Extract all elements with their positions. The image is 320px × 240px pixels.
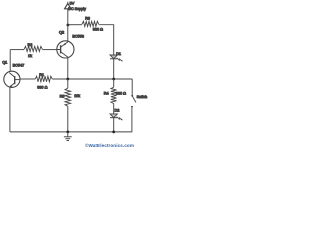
node junction at supply split [67,24,70,27]
svg-text:R2: R2 [28,43,33,47]
wire Q1 emitter to bottom rail [9,87,11,132]
wire switch branch top [131,79,133,95]
svg-text:BC558: BC558 [72,35,84,39]
wire switch to bottom rail [131,108,133,132]
resistor R2 [24,46,42,51]
junction D2 rail node [112,131,115,134]
svg-text:330 Ω: 330 Ω [37,86,47,90]
node junction at D1 branch [112,78,115,81]
LED D1 [110,55,123,62]
svg-text:5V: 5V [70,1,75,6]
junction ground node [66,131,69,134]
wire node line R1 to switch corner [52,78,132,80]
wire node A to R5 [67,79,69,88]
svg-text:10k: 10k [74,94,80,98]
resistor R5 [65,88,71,106]
LED D2 [110,114,123,121]
wire R2 left corner to Q1 collector [9,50,11,72]
wire D1 to node line [113,59,115,79]
svg-text:Switch: Switch [137,95,148,99]
wire node to R4 [113,79,115,87]
wire Q1 base to R1 [20,78,35,80]
svg-text:330 Ω: 330 Ω [116,91,126,95]
bottom rail wire [10,131,132,133]
svg-text:D1: D1 [116,52,121,56]
svg-text:Q2: Q2 [59,30,64,34]
svg-text:R4: R4 [104,91,109,95]
wire corner to R2 [10,49,24,51]
svg-text:1k: 1k [28,54,32,58]
svg-text:D2: D2 [115,108,120,112]
svg-text:DC Supply: DC Supply [68,7,86,11]
node junction A [66,78,69,81]
wire R4 to D2 [113,104,115,114]
wire R5 to bottom rail [67,106,69,132]
svg-text:Q1: Q1 [2,61,7,65]
wire supply node to Q2 emitter [67,25,69,42]
switch S1 [131,95,136,108]
svg-text:R3: R3 [85,17,90,21]
ground [64,132,72,141]
DC supply symbol V1 [65,2,71,25]
wire R3 to D1 branch corner [99,25,114,55]
wire Q2 collector to node A [67,58,69,79]
wire R2 to Q2 base [42,49,56,51]
svg-text:R1: R1 [39,73,44,77]
wire supply to R3 [68,24,82,26]
svg-text:©WatElectronics.com: ©WatElectronics.com [85,142,134,148]
svg-text:R5: R5 [60,94,65,98]
resistor R1 [35,76,52,82]
transistor Q2 [57,41,74,58]
svg-text:BC547: BC547 [13,63,25,67]
wire D2 to bottom rail [113,118,115,132]
resistor R3 [82,21,99,26]
svg-text:330 Ω: 330 Ω [93,28,103,32]
transistor Q1 [4,71,20,87]
resistor R4 [111,87,117,103]
